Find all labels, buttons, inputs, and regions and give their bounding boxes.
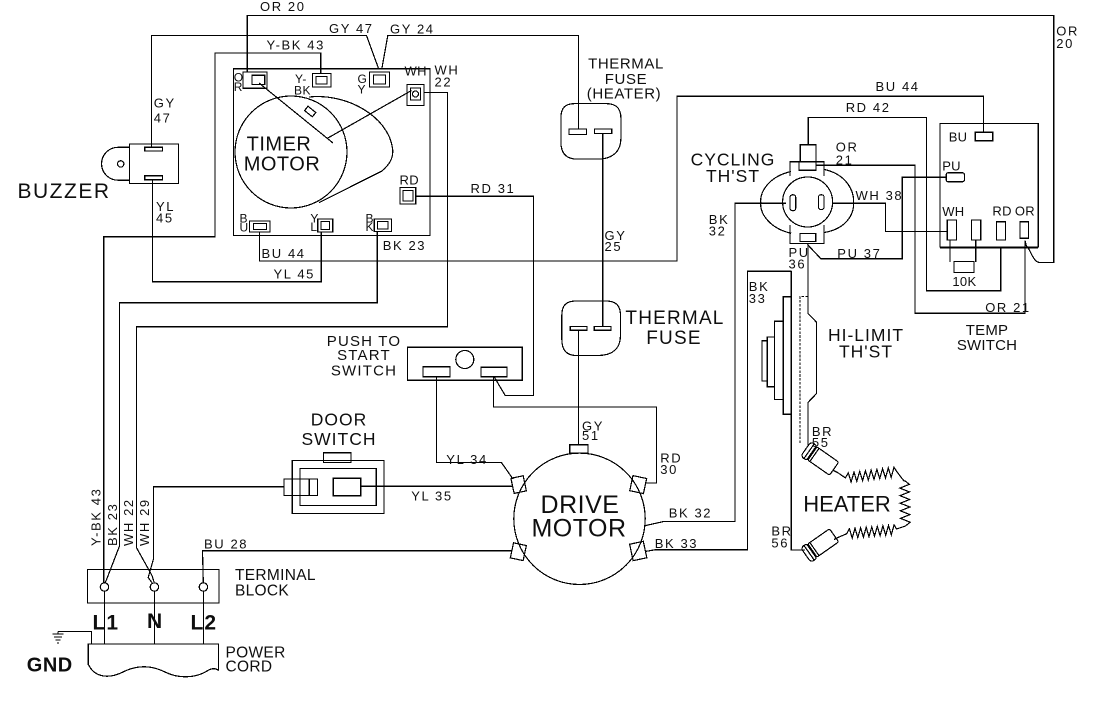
svg-text:BU 44: BU 44: [262, 246, 306, 261]
svg-text:TH'ST: TH'ST: [706, 166, 760, 186]
timer terminal Y-BK: [312, 74, 331, 87]
svg-text:20: 20: [1056, 36, 1074, 51]
heater element coil: [834, 467, 905, 482]
svg-text:K: K: [366, 220, 375, 234]
wire L2 to power cord: [202, 591, 204, 644]
svg-text:SWITCH: SWITCH: [301, 429, 376, 449]
wire YL 35: [361, 485, 513, 487]
svg-text:RD: RD: [400, 173, 419, 188]
svg-text:21: 21: [836, 153, 854, 168]
svg-text:WH 22: WH 22: [121, 498, 136, 546]
svg-text:55: 55: [812, 435, 830, 450]
wire YL 34: [437, 377, 513, 479]
svg-text:GY 24: GY 24: [390, 22, 435, 37]
timer terminal BK: [374, 219, 391, 231]
svg-text:PU: PU: [942, 159, 961, 174]
svg-text:OR 21: OR 21: [985, 300, 1031, 315]
svg-text:GND: GND: [27, 655, 73, 677]
svg-text:BK 32: BK 32: [669, 505, 712, 520]
svg-text:L2: L2: [191, 611, 218, 634]
wire WH 38: [832, 203, 947, 231]
drive motor terminal RD30: [630, 476, 647, 494]
svg-text:MOTOR: MOTOR: [531, 515, 626, 543]
svg-text:45: 45: [156, 211, 174, 226]
svg-text:22: 22: [435, 75, 453, 90]
svg-text:BU 28: BU 28: [204, 537, 248, 552]
wire GND lead: [58, 632, 91, 645]
svg-text:L: L: [310, 220, 317, 234]
drive motor circle: [514, 453, 645, 584]
svg-text:BU 44: BU 44: [876, 79, 920, 94]
timer motor box: [234, 69, 430, 236]
terminal L1: [100, 583, 108, 591]
svg-text:DOOR: DOOR: [311, 410, 368, 430]
svg-text:BK 23: BK 23: [383, 238, 426, 253]
svg-text:TIMER: TIMER: [247, 134, 312, 156]
buzzer: [102, 144, 179, 184]
wire BK 33: [645, 271, 791, 551]
wire PU 36: [807, 243, 809, 313]
svg-text:(HEATER): (HEATER): [587, 86, 662, 103]
drive motor terminal BU28: [510, 543, 526, 561]
svg-text:GY 47: GY 47: [329, 21, 374, 36]
svg-text:N: N: [147, 610, 163, 633]
svg-text:YL 45: YL 45: [274, 267, 316, 282]
wire Y-BK 43: [104, 53, 321, 583]
cycling thermostat lens: [761, 172, 792, 234]
timer terminal WH: [407, 85, 424, 106]
heater plug BR55: [801, 442, 840, 477]
wire RD 31: [416, 196, 534, 395]
svg-text:CORD: CORD: [226, 659, 273, 676]
svg-text:RD 31: RD 31: [471, 181, 516, 196]
cycling thermostat body: [790, 145, 824, 244]
drive motor terminal GY51: [570, 445, 588, 453]
svg-text:U: U: [240, 220, 249, 234]
wire BK 32: [644, 203, 786, 526]
svg-text:SWITCH: SWITCH: [957, 337, 1017, 354]
heater plug BR56: [801, 528, 840, 563]
svg-text:BU: BU: [949, 130, 968, 145]
svg-text:WH: WH: [942, 204, 964, 219]
svg-text:Y-BK 43: Y-BK 43: [267, 38, 325, 53]
drive motor terminal BK33: [630, 541, 647, 560]
cycling thermostat circle: [783, 177, 833, 227]
svg-text:MOTOR: MOTOR: [244, 154, 321, 176]
svg-text:BK 33: BK 33: [655, 536, 698, 551]
wire RD 30: [494, 377, 657, 483]
svg-text:SWITCH: SWITCH: [331, 363, 397, 380]
wire BU 28: [203, 551, 512, 583]
terminal block box: [88, 570, 220, 604]
wire OR 21: [816, 165, 1025, 313]
svg-text:25: 25: [605, 239, 623, 254]
svg-text:YL 35: YL 35: [411, 489, 453, 504]
ground symbol: [53, 632, 64, 644]
svg-text:HEATER: HEATER: [803, 492, 891, 517]
timer switch wiper A: [259, 83, 333, 143]
drive motor terminal YL: [511, 476, 526, 494]
timer terminal YL: [318, 219, 333, 232]
svg-text:47: 47: [154, 111, 172, 126]
temp switch box: [940, 124, 1038, 248]
timer terminal G-Y: [370, 72, 390, 87]
svg-text:FUSE: FUSE: [646, 328, 701, 349]
wire YL 45: [153, 180, 322, 282]
svg-text:WH 38: WH 38: [856, 188, 904, 203]
svg-text:Y-BK 43: Y-BK 43: [89, 488, 104, 546]
wire GY 51: [578, 330, 580, 444]
svg-text:BK 23: BK 23: [105, 503, 120, 546]
svg-text:56: 56: [771, 535, 789, 550]
terminal L2: [199, 583, 207, 591]
svg-text:30: 30: [660, 462, 678, 477]
svg-text:BK: BK: [294, 84, 311, 98]
svg-text:PU 37: PU 37: [837, 246, 881, 261]
svg-text:36: 36: [789, 256, 807, 271]
timer switch wiper B: [327, 91, 412, 139]
svg-text:BUZZER: BUZZER: [18, 180, 111, 203]
wire RD 42: [808, 117, 1001, 290]
svg-text:33: 33: [749, 291, 767, 306]
wire N to power cord: [153, 591, 155, 644]
svg-text:L1: L1: [93, 611, 120, 634]
timer terminal RD: [400, 188, 416, 204]
svg-text:RD 42: RD 42: [846, 100, 891, 115]
svg-text:RD: RD: [992, 203, 1011, 218]
wire GY 25: [602, 134, 604, 326]
svg-text:Y: Y: [358, 83, 367, 97]
timer terminal BU: [250, 221, 271, 232]
svg-text:THERMAL: THERMAL: [625, 308, 724, 329]
svg-text:10K: 10K: [952, 274, 976, 289]
timer terminal OR: [243, 72, 267, 88]
wire WH 29: [148, 487, 284, 583]
svg-text:WH: WH: [405, 64, 427, 79]
svg-text:START: START: [337, 347, 391, 364]
svg-text:R: R: [234, 80, 243, 94]
svg-text:51: 51: [582, 428, 600, 443]
timer cam lobe: [309, 97, 393, 203]
push to start switch: [408, 347, 523, 380]
svg-text:GY: GY: [154, 96, 176, 111]
svg-text:TH'ST: TH'ST: [839, 341, 893, 361]
wire BK 23: [105, 232, 378, 584]
svg-text:WH 29: WH 29: [137, 498, 152, 546]
svg-text:OR: OR: [1015, 203, 1035, 218]
svg-text:BLOCK: BLOCK: [235, 582, 289, 599]
wire PU 37: [808, 177, 947, 259]
wire GY 47: [152, 36, 379, 148]
hi-limit thermostat: [762, 271, 816, 550]
timer motor circle: [235, 96, 347, 208]
wire WH 22: [137, 92, 448, 582]
wire BU 44: [260, 96, 984, 261]
door switch: [284, 453, 384, 514]
temp switch 10K resistor: [950, 240, 976, 273]
power cord: [88, 644, 218, 677]
wire L1 to power cord: [104, 591, 106, 644]
svg-text:OR 20: OR 20: [260, 0, 306, 14]
wire OR 20: [247, 16, 1054, 263]
terminal N: [150, 583, 158, 591]
svg-text:32: 32: [709, 224, 727, 239]
thermal fuse (heater) body: [561, 104, 621, 160]
thermal fuse (middle) body: [562, 301, 621, 356]
svg-text:YL 34: YL 34: [446, 452, 488, 467]
wire GY 24: [382, 36, 579, 130]
timer wiper contact: [305, 106, 316, 117]
